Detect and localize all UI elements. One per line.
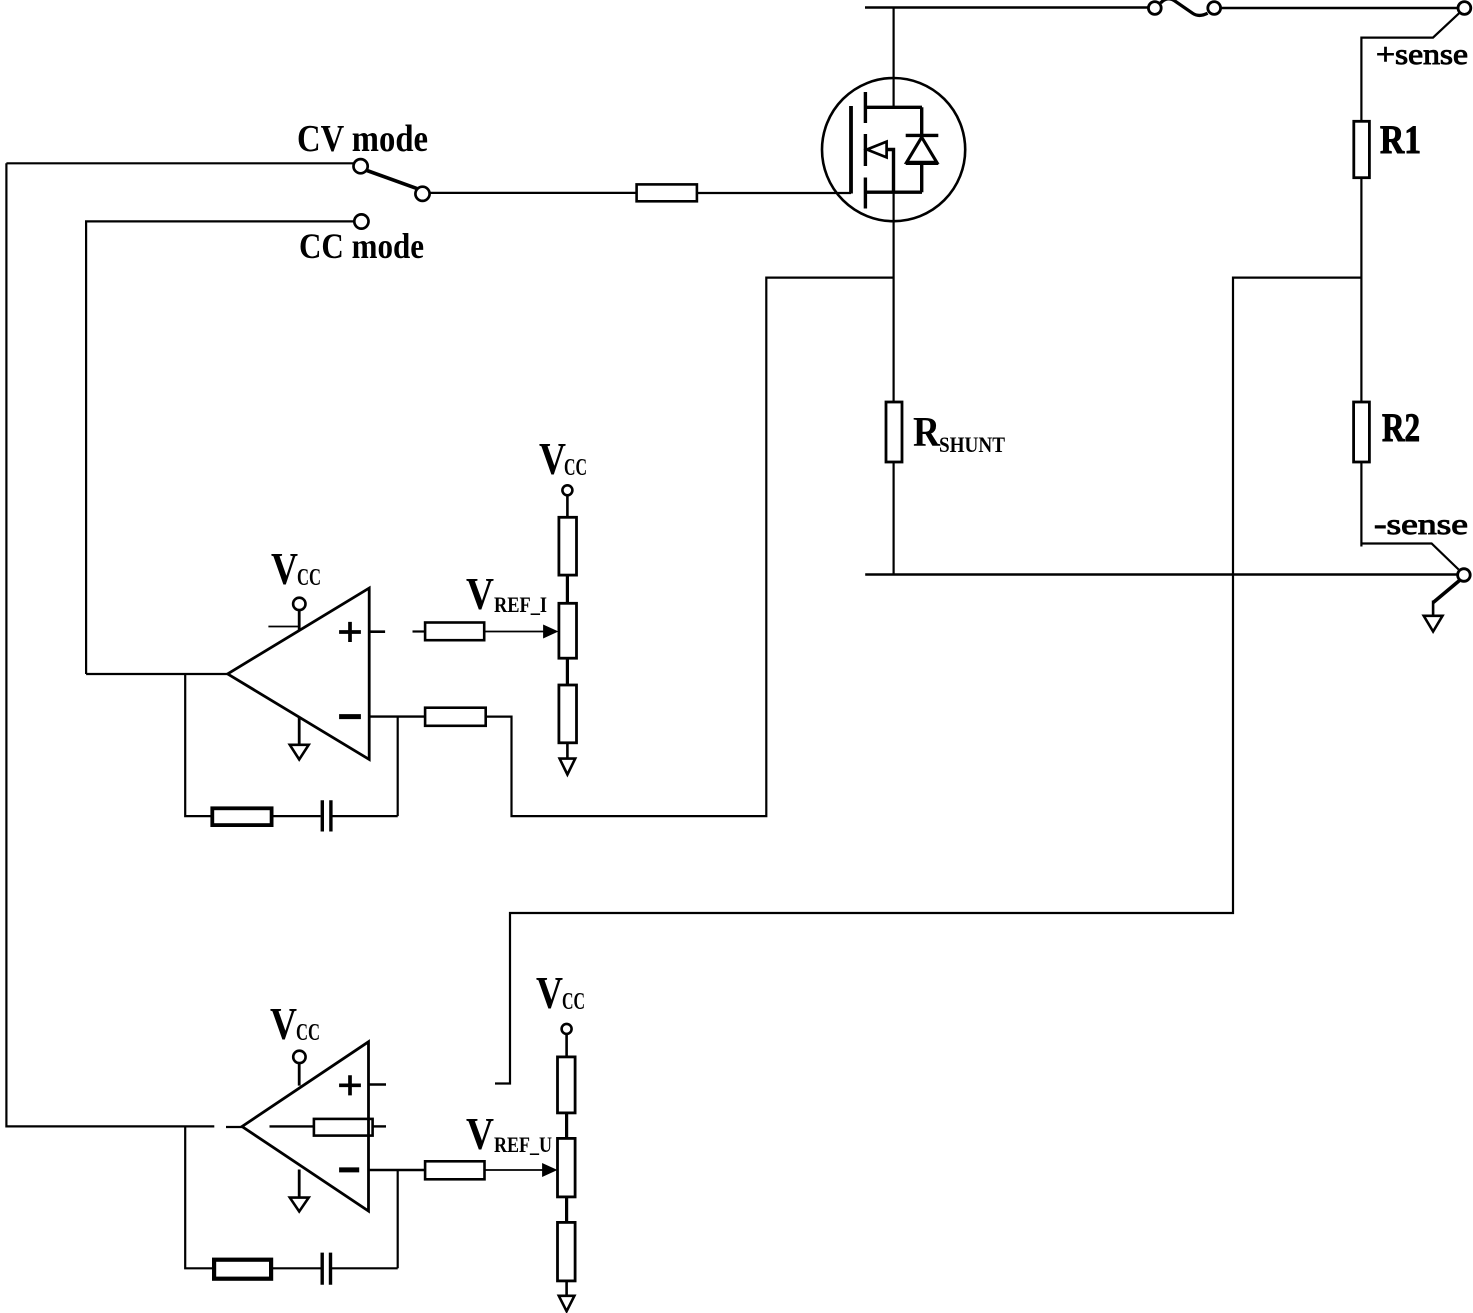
ground at -sense switch [1424,616,1443,632]
switch S3 lever [367,171,417,189]
U2 minus input lead [369,1169,426,1171]
wire top rail right [1221,7,1458,9]
pot1 VCC lead [566,495,569,517]
wire shunt to bottom rail [892,462,894,575]
resistor U2 minus input [425,1161,484,1179]
resistor U1 minus input [425,708,486,726]
resistor pot1 lower [559,685,577,743]
wire top rail left [865,6,1149,8]
svg-text:R1: R1 [1380,117,1421,162]
U1 minus sign [339,714,361,719]
wire divider tap [495,278,1361,1084]
svg-text:V: V [536,967,563,1018]
svg-text:CV mode: CV mode [297,118,428,160]
potentiometer pot1 element [559,603,577,658]
wire pot1 link lower [566,658,569,685]
resistor gate [637,184,697,201]
U1 ground pin [298,717,301,745]
breaker S1 blade [1161,0,1208,16]
switch S3 CC contact [354,214,368,228]
ground of pot1 [560,759,576,775]
wire R2 to -sense [1361,462,1458,570]
U2 plus sign [339,1075,361,1095]
U2 plus input lead [369,1083,387,1086]
wire +sense [1361,13,1459,122]
wire wiper arrow VREF_I [484,631,546,633]
resistor R_SHUNT [886,402,902,462]
ground of U2 [290,1198,309,1212]
resistor U2 feedback [214,1260,271,1279]
wire U1 output [86,673,228,675]
wire U1 minus node [397,717,399,817]
U1 V+ tick [268,626,299,628]
Q1 drain bar [866,106,922,109]
resistor pot1 upper [559,517,577,575]
U2 VCC pin [298,1063,301,1086]
svg-text:+sense: +sense [1376,38,1468,71]
terminal positive input [1458,2,1471,15]
ground of U1 [290,745,309,760]
capacitor C1 [322,800,331,831]
pot2 VCC lead [565,1034,568,1057]
wire CC contact to U1 output [86,221,354,674]
potentiometer pot2 element [558,1138,576,1197]
transistor Q1 envelope [822,78,965,221]
wire U2 feedback from output [185,1127,214,1268]
U1 plus input lead [369,630,385,633]
terminal -sense [1458,569,1471,582]
wire pot2 link upper [565,1113,568,1139]
switch S3 CV contact [354,159,368,173]
wire gate [697,192,851,194]
resistor R1 [1354,121,1370,177]
resistor U2 internal [314,1119,373,1136]
svg-text:CC mode: CC mode [299,226,424,266]
pot1 VCC terminal [562,485,572,495]
wire U1 minus resistor to current sense [486,278,894,817]
svg-text:REF_U: REF_U [494,1132,552,1157]
wire feedback resistor to capacitor [272,815,321,817]
wire U2 minus node [397,1170,399,1268]
wire U1 feedback from output [185,674,212,816]
breaker S1 right contact [1208,2,1221,15]
Q1 channel segments [864,92,867,209]
U1 VCC terminal [293,598,305,610]
wire CV contact [6,162,353,164]
op-amp U2 [242,1042,369,1211]
wire U2 feedback resistor to capacitor [270,1267,320,1269]
wire C1 to minus node [333,815,398,817]
Q1 body lead [887,150,894,193]
wire U2 output stub [226,1126,243,1128]
U2 internal line [270,1125,314,1127]
resistor R2 [1354,402,1370,462]
diode D1 body diode [906,107,939,192]
svg-text:R2: R2 [1382,405,1420,450]
Q1 body arrow [867,142,887,158]
pot1 ground lead [566,743,569,759]
wire drain [892,8,894,108]
U2 minus sign [339,1167,359,1172]
U1 minus input lead [369,715,425,717]
wire wiper arrow VREF_U [485,1169,546,1171]
pot2 VCC terminal [562,1024,572,1034]
diode D1 triangle [906,137,939,163]
wire R1 to R2 [1360,178,1362,402]
Q1 source bar [866,190,922,193]
wire bottom rail [865,573,1457,575]
svg-text:CC: CC [296,1020,320,1046]
pot2 ground lead [565,1281,568,1296]
U1 plus sign [339,622,361,642]
wire CV rail [6,163,214,1126]
svg-text:CC: CC [297,565,321,591]
arrowhead VREF_I [544,625,558,637]
wire source to shunt [892,192,894,402]
ground of pot2 [559,1296,575,1311]
svg-text:-sense: -sense [1374,508,1468,541]
svg-text:REF_I: REF_I [494,592,547,617]
wire pot1 link upper [566,575,569,603]
arrowhead VREF_U [543,1164,557,1176]
U2 ground pin [298,1170,301,1198]
breaker S1 left contact [1148,2,1161,15]
U1 VCC pin [298,610,301,631]
wire pole to gate resistor [430,192,637,194]
op-amp U1 [228,588,370,759]
resistor U1 plus input [425,623,484,641]
svg-text:CC: CC [562,989,585,1015]
switch S2 lever [1433,581,1459,603]
U2 internal resistor lead [373,1125,386,1127]
wire lever to ground [1432,601,1435,617]
Q1 gate bar [849,106,853,194]
wire to U1 plus resistor [413,630,426,632]
svg-text:V: V [466,1108,494,1159]
capacitor C2 [322,1253,330,1285]
resistor U1 feedback [212,808,271,825]
resistor pot2 upper [558,1057,576,1113]
svg-text:CC: CC [564,455,587,481]
svg-text:V: V [270,998,297,1049]
svg-text:V: V [539,433,566,484]
svg-text:V: V [271,543,298,594]
svg-text:SHUNT: SHUNT [939,432,1005,457]
U2 VCC terminal [293,1051,305,1063]
resistor pot2 lower [558,1222,576,1281]
switch S3 pole [415,187,429,201]
wire C2 to minus node [332,1267,398,1269]
svg-text:R: R [913,410,941,456]
svg-text:V: V [466,568,494,619]
wire pot2 link lower [565,1197,568,1223]
